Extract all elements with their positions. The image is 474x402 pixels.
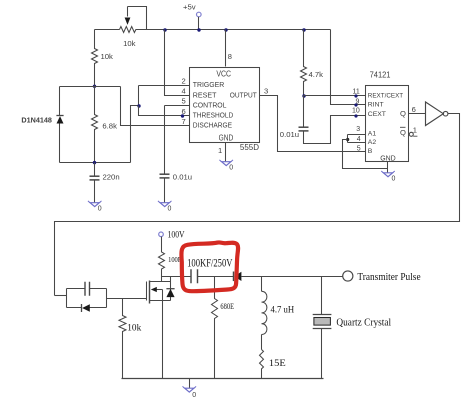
wire bottom ground rail (122, 378, 324, 380)
wire OUTPUT pin3 to B of 74121 (260, 96, 366, 152)
wire Q pin6 to inverter (409, 113, 426, 115)
ground below 555 (222, 162, 231, 166)
svg-text:D1N4148: D1N4148 (21, 116, 52, 125)
svg-text:10k: 10k (123, 39, 136, 48)
potentiometer R2 10k horizontal (120, 27, 147, 33)
resistor R1 10k vertical (92, 30, 98, 86)
svg-text:10k: 10k (101, 52, 114, 61)
svg-text:3: 3 (356, 126, 360, 133)
resistor R4 4.7k (301, 30, 307, 96)
svg-text:CEXT: CEXT (368, 111, 386, 118)
terminal transmitter pulse (343, 271, 353, 281)
body diode D3 (170, 277, 172, 301)
svg-text:A2: A2 (368, 139, 377, 146)
svg-text:GND: GND (219, 134, 234, 143)
transistor Q1 MOSFET gate bar (146, 282, 148, 301)
potentiometer wiper stem (127, 7, 129, 17)
node junction 10k/6.8k/rail (93, 85, 96, 88)
wire node rail left (60, 86, 121, 88)
svg-text:VCC: VCC (216, 70, 231, 79)
svg-text:10k: 10k (127, 324, 141, 334)
svg-text:220n: 220n (103, 173, 120, 182)
svg-text:555D: 555D (240, 143, 259, 152)
node dot pin11 (354, 94, 357, 97)
red annotation loop (181, 242, 238, 291)
resistor R5 10k gate pulldown (119, 299, 126, 379)
svg-text:11: 11 (353, 88, 360, 95)
diode D1 D1N4148 (59, 87, 61, 116)
svg-text:3: 3 (264, 87, 268, 96)
wire node to pin6 THRESHOLD (139, 106, 190, 116)
MOSFET channel bar (149, 281, 151, 304)
svg-text:Q: Q (400, 109, 406, 118)
wire pin8 VCC stem (225, 30, 227, 67)
crystal top plate (313, 314, 332, 316)
wire timing node up to trigger/threshold (131, 106, 139, 163)
svg-text:Quartz Crystal: Quartz Crystal (336, 317, 391, 328)
svg-text:4: 4 (182, 87, 186, 96)
wire 555 pin1 gnd stem (225, 143, 227, 162)
wire top rail to 74121 (147, 29, 331, 31)
svg-text:100V: 100V (168, 230, 185, 241)
wire timing node rail (60, 162, 131, 164)
node dot on threshold line (181, 114, 184, 117)
svg-text:0: 0 (392, 175, 396, 182)
svg-text:10: 10 (352, 107, 360, 114)
svg-text:DISCHARGE: DISCHARGE (193, 121, 232, 130)
wire inverter output right and down and across to bottom-left (55, 114, 460, 296)
capacitor C5 100KF/250V (191, 269, 198, 283)
wire node to pin7 DISCHARGE (121, 87, 190, 126)
resistor R7 680E (212, 277, 218, 379)
svg-text:B: B (368, 148, 373, 155)
wire snubber to gate (107, 298, 147, 300)
node junction 4.7k/pin11 (302, 94, 305, 97)
wire pin11 REXT/CEXT (304, 95, 366, 97)
wire drain rail (162, 276, 343, 278)
node dot pin9 (354, 103, 357, 106)
svg-text:15E: 15E (269, 359, 286, 369)
svg-text:OUTPUT: OUTPUT (230, 90, 257, 99)
node junction rail/pin4 (163, 28, 166, 31)
wire pin2 vertical (138, 86, 140, 106)
quartz crystal X1 stem (321, 277, 323, 315)
svg-text:REXT/CEXT: REXT/CEXT (368, 92, 403, 99)
svg-text:74121: 74121 (370, 70, 391, 79)
wire pot wiper loop (128, 7, 147, 30)
svg-text:100KF/250V: 100KF/250V (187, 258, 233, 270)
svg-text:7: 7 (182, 117, 186, 126)
capacitor C2 0.01u control (160, 173, 170, 175)
potentiometer wiper arrowhead (125, 18, 131, 25)
svg-text:A1: A1 (368, 131, 377, 138)
snubber box left/right edges (67, 289, 107, 308)
crystal bottom stem (321, 329, 323, 379)
svg-text:1: 1 (218, 146, 222, 155)
wire into snubber network (55, 295, 67, 297)
wire pin5 CONTROL (165, 106, 190, 174)
wire pin2 TRIGGER (139, 85, 190, 87)
crystal body (314, 318, 331, 326)
ground below 220n (90, 203, 99, 207)
ground bottom rail stem (189, 379, 191, 389)
svg-text:+5v: +5v (183, 3, 196, 12)
wire top +5v rail left segment (95, 29, 120, 31)
svg-text:TRIGGER: TRIGGER (193, 80, 225, 89)
svg-text:6.8k: 6.8k (102, 121, 117, 130)
resistor R6 100R (159, 237, 165, 277)
wire source down to ground rail (162, 290, 164, 379)
svg-text:4: 4 (357, 136, 361, 143)
MOSFET arrow line (157, 289, 163, 291)
svg-text:4.7k: 4.7k (309, 70, 324, 79)
node junction rail/pin8 (224, 28, 227, 31)
MOSFET drain tick (150, 281, 171, 283)
svg-text:0: 0 (168, 206, 172, 213)
inductor L1 4.7uH (261, 277, 263, 292)
wire 74121 gnd stem (387, 162, 389, 173)
node junction rail/4.7k (302, 28, 305, 31)
svg-text:8: 8 (228, 52, 232, 61)
svg-text:RINT: RINT (368, 101, 384, 108)
wire drain tick up to rail (161, 277, 163, 282)
power terminal 100V (159, 232, 164, 237)
svg-text:0.01u: 0.01u (173, 173, 192, 182)
svg-text:0.01u: 0.01u (280, 130, 299, 139)
power terminal +5v (197, 12, 202, 17)
svg-text:0: 0 (98, 206, 102, 213)
svg-text:5: 5 (182, 97, 186, 106)
MOSFET arrow head (151, 287, 157, 292)
ground below 74121 (383, 173, 392, 177)
capacitor C1 220n (94, 163, 96, 176)
ground below 0.01u (160, 203, 169, 207)
node junction bracket (346, 138, 349, 141)
snubber bottom edge with diode D2 (67, 307, 107, 309)
snubber top edge with capacitor C4 (67, 288, 107, 290)
node junction 6.8k/220n (93, 161, 96, 164)
node junction trigger/threshold/timing (137, 104, 140, 107)
svg-text:CONTROL: CONTROL (193, 100, 227, 109)
Q overbar (400, 126, 406, 128)
op-amp 74121 U2 box (366, 86, 409, 162)
MOSFET source tick (150, 300, 171, 302)
svg-text:5: 5 (357, 145, 361, 152)
svg-text:2: 2 (182, 77, 186, 86)
wire A1 A2 bracket (348, 135, 366, 143)
svg-text:Q: Q (400, 128, 406, 137)
svg-text:0: 0 (229, 165, 233, 172)
node dot pin10 (354, 114, 357, 117)
svg-text:Transmiter Pulse: Transmiter Pulse (357, 272, 420, 283)
node junction rail/+5v (197, 28, 200, 31)
crystal bottom plate (313, 328, 332, 330)
wire inductor to 15E (261, 335, 263, 350)
capacitor C3 0.01u cext (303, 96, 305, 127)
wire A1A2 to gnd stem (343, 140, 388, 169)
svg-text:THRESHOLD: THRESHOLD (193, 111, 234, 120)
wire rail corner down to pin9 RINT (331, 30, 366, 105)
diode D4 series (233, 272, 235, 282)
resistor R3 6.8k (92, 86, 98, 163)
inverter U3 (426, 102, 444, 126)
svg-text:0: 0 (192, 392, 196, 399)
svg-text:RESET: RESET (193, 90, 217, 99)
wire pin4 RESET to rail (165, 30, 190, 96)
svg-text:6: 6 (182, 107, 186, 116)
resistor R8 15E (260, 350, 264, 379)
svg-text:680E: 680E (220, 302, 234, 311)
svg-text:9: 9 (356, 98, 360, 105)
Qbar pin1 open pin circle (409, 132, 413, 136)
svg-text:GND: GND (380, 153, 396, 162)
op-amp 555 timer U1 box (190, 68, 260, 143)
svg-text:6: 6 (412, 105, 416, 114)
ground bottom rail symbol (185, 388, 194, 392)
svg-text:4.7 uH: 4.7 uH (271, 306, 295, 316)
